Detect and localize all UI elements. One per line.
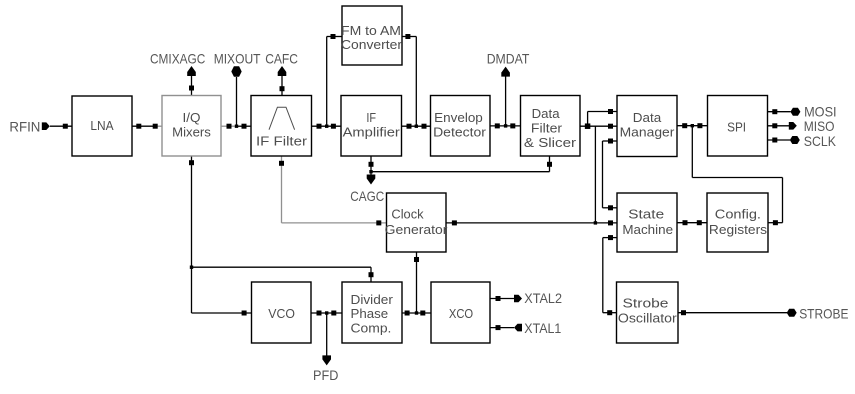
wire Mixers LO feedback <box>189 156 374 316</box>
wire PFD stub <box>326 313 328 358</box>
block State Machine <box>617 193 677 252</box>
svg-text:Machine: Machine <box>622 222 673 237</box>
svg-text:Filter: Filter <box>531 121 563 136</box>
svg-text:VCO: VCO <box>268 306 295 321</box>
svg-text:CAFC: CAFC <box>265 51 298 67</box>
block Data Filter & Slicer <box>521 96 581 157</box>
svg-text:XTAL1: XTAL1 <box>524 320 561 336</box>
wire SPI SCLK <box>768 138 791 143</box>
svg-text:Oscillator: Oscillator <box>618 310 678 325</box>
block I/Q Mixers <box>162 96 221 157</box>
wire Data Manager to State Machine <box>603 139 618 211</box>
block IF Amplifier <box>341 96 402 157</box>
svg-text:Manager: Manager <box>620 125 676 140</box>
block Clock Generator <box>385 193 449 252</box>
svg-text:XTAL2: XTAL2 <box>524 290 562 306</box>
wire IF Filter to IF Amplifier <box>312 124 342 129</box>
svg-text:Detector: Detector <box>433 125 487 140</box>
svg-text:Data: Data <box>633 110 662 125</box>
block Envelop Detector <box>431 96 491 157</box>
wire Data Filter junction down <box>594 126 597 224</box>
port XTAL2 <box>514 290 562 306</box>
block Strobe Oscillator <box>617 282 679 343</box>
svg-text:Amplifier: Amplifier <box>343 125 401 140</box>
wire Clock Generator bottom <box>414 252 419 315</box>
svg-text:SCLK: SCLK <box>804 133 837 149</box>
port MISO <box>789 118 835 134</box>
svg-text:IF: IF <box>366 110 376 125</box>
wire DMDAT stub <box>504 74 507 128</box>
svg-text:Generator: Generator <box>385 222 449 237</box>
block VCO <box>252 282 312 343</box>
block SPI <box>708 96 768 157</box>
port SCLK <box>790 133 837 149</box>
svg-text:Converter: Converter <box>341 37 403 52</box>
port MOSI <box>790 104 836 120</box>
wire FM-AM left tap <box>325 34 342 128</box>
svg-text:State: State <box>628 206 664 221</box>
wire Clock Generator to State Machine <box>446 220 617 225</box>
port CAGC <box>350 175 384 205</box>
port XTAL1 <box>514 320 561 336</box>
wire State Machine to Strobe Oscillator <box>603 235 617 315</box>
wire RFIN to LNA <box>50 124 72 129</box>
wire IF Amp CAGC tee <box>369 156 553 178</box>
wire Data Filter to Data Manager <box>580 109 617 129</box>
wire CAFC stub <box>280 76 285 96</box>
svg-text:LNA: LNA <box>90 118 113 133</box>
wire I/Q Mixers to IF Filter <box>221 124 251 129</box>
svg-text:Data: Data <box>532 106 561 121</box>
block Data Manager <box>617 96 677 157</box>
wire Strobe Oscillator output <box>678 310 787 315</box>
wire Divider to XCO <box>402 311 431 316</box>
block Divider Phase Comp. <box>342 282 402 343</box>
wire IF Filter to Clock Generator <box>279 156 387 225</box>
port DMDAT <box>487 51 530 77</box>
block LNA <box>72 96 132 156</box>
svg-text:Clock: Clock <box>391 206 424 221</box>
port MIXOUT <box>214 51 261 77</box>
wire Envelop Detector to Data Filter <box>490 123 521 128</box>
svg-text:IF Filter: IF Filter <box>256 133 308 148</box>
svg-text:SPI: SPI <box>727 120 746 135</box>
svg-text:Config.: Config. <box>715 206 761 221</box>
svg-text:Registers: Registers <box>709 222 768 237</box>
wire SPI to Config Registers <box>691 124 783 225</box>
svg-text:RFIN: RFIN <box>9 119 40 135</box>
svg-text:Phase: Phase <box>351 306 389 321</box>
port PFD <box>313 355 338 383</box>
wire LNA to I/Q Mixers <box>132 124 162 129</box>
svg-text:DMDAT: DMDAT <box>487 51 530 67</box>
svg-text:MIXOUT: MIXOUT <box>214 51 261 67</box>
block XCO <box>431 282 490 343</box>
wire Data Manager to SPI <box>677 123 708 128</box>
svg-text:STROBE: STROBE <box>799 306 848 322</box>
wire FM-AM right tap <box>402 34 418 128</box>
port RFIN <box>9 119 49 135</box>
port STROBE <box>787 306 849 322</box>
wire CMIXAGC stub <box>189 76 194 96</box>
svg-text:Strobe: Strobe <box>623 296 669 311</box>
svg-text:MISO: MISO <box>804 118 835 134</box>
svg-text:XCO: XCO <box>449 306 473 321</box>
svg-text:& Slicer: & Slicer <box>524 135 577 150</box>
svg-text:I/Q: I/Q <box>183 110 201 125</box>
svg-text:Comp.: Comp. <box>351 320 392 335</box>
wire SPI MISO <box>768 123 790 128</box>
block FM to AM Converter <box>341 6 403 65</box>
svg-text:Envelop: Envelop <box>434 110 483 125</box>
port CMIXAGC <box>150 51 205 77</box>
wire SPI MOSI <box>768 109 791 114</box>
wire XCO XTAL1 <box>490 325 514 330</box>
wire MIXOUT stub <box>235 77 238 128</box>
block Config. Registers <box>707 193 768 252</box>
svg-text:FM to AM: FM to AM <box>341 23 401 38</box>
svg-text:CMIXAGC: CMIXAGC <box>150 51 205 67</box>
svg-text:Divider: Divider <box>351 292 394 307</box>
port CAFC <box>265 51 298 77</box>
svg-text:CAGC: CAGC <box>350 188 384 204</box>
wire IF Amplifier to Envelop Detector <box>402 124 431 129</box>
block IF Filter <box>251 96 312 157</box>
wire State Machine to Config Registers <box>677 220 707 225</box>
wire XCO XTAL2 <box>490 296 514 301</box>
wire VCO to Divider <box>311 311 342 316</box>
svg-text:Mixers: Mixers <box>172 125 211 140</box>
svg-text:PFD: PFD <box>313 367 338 383</box>
